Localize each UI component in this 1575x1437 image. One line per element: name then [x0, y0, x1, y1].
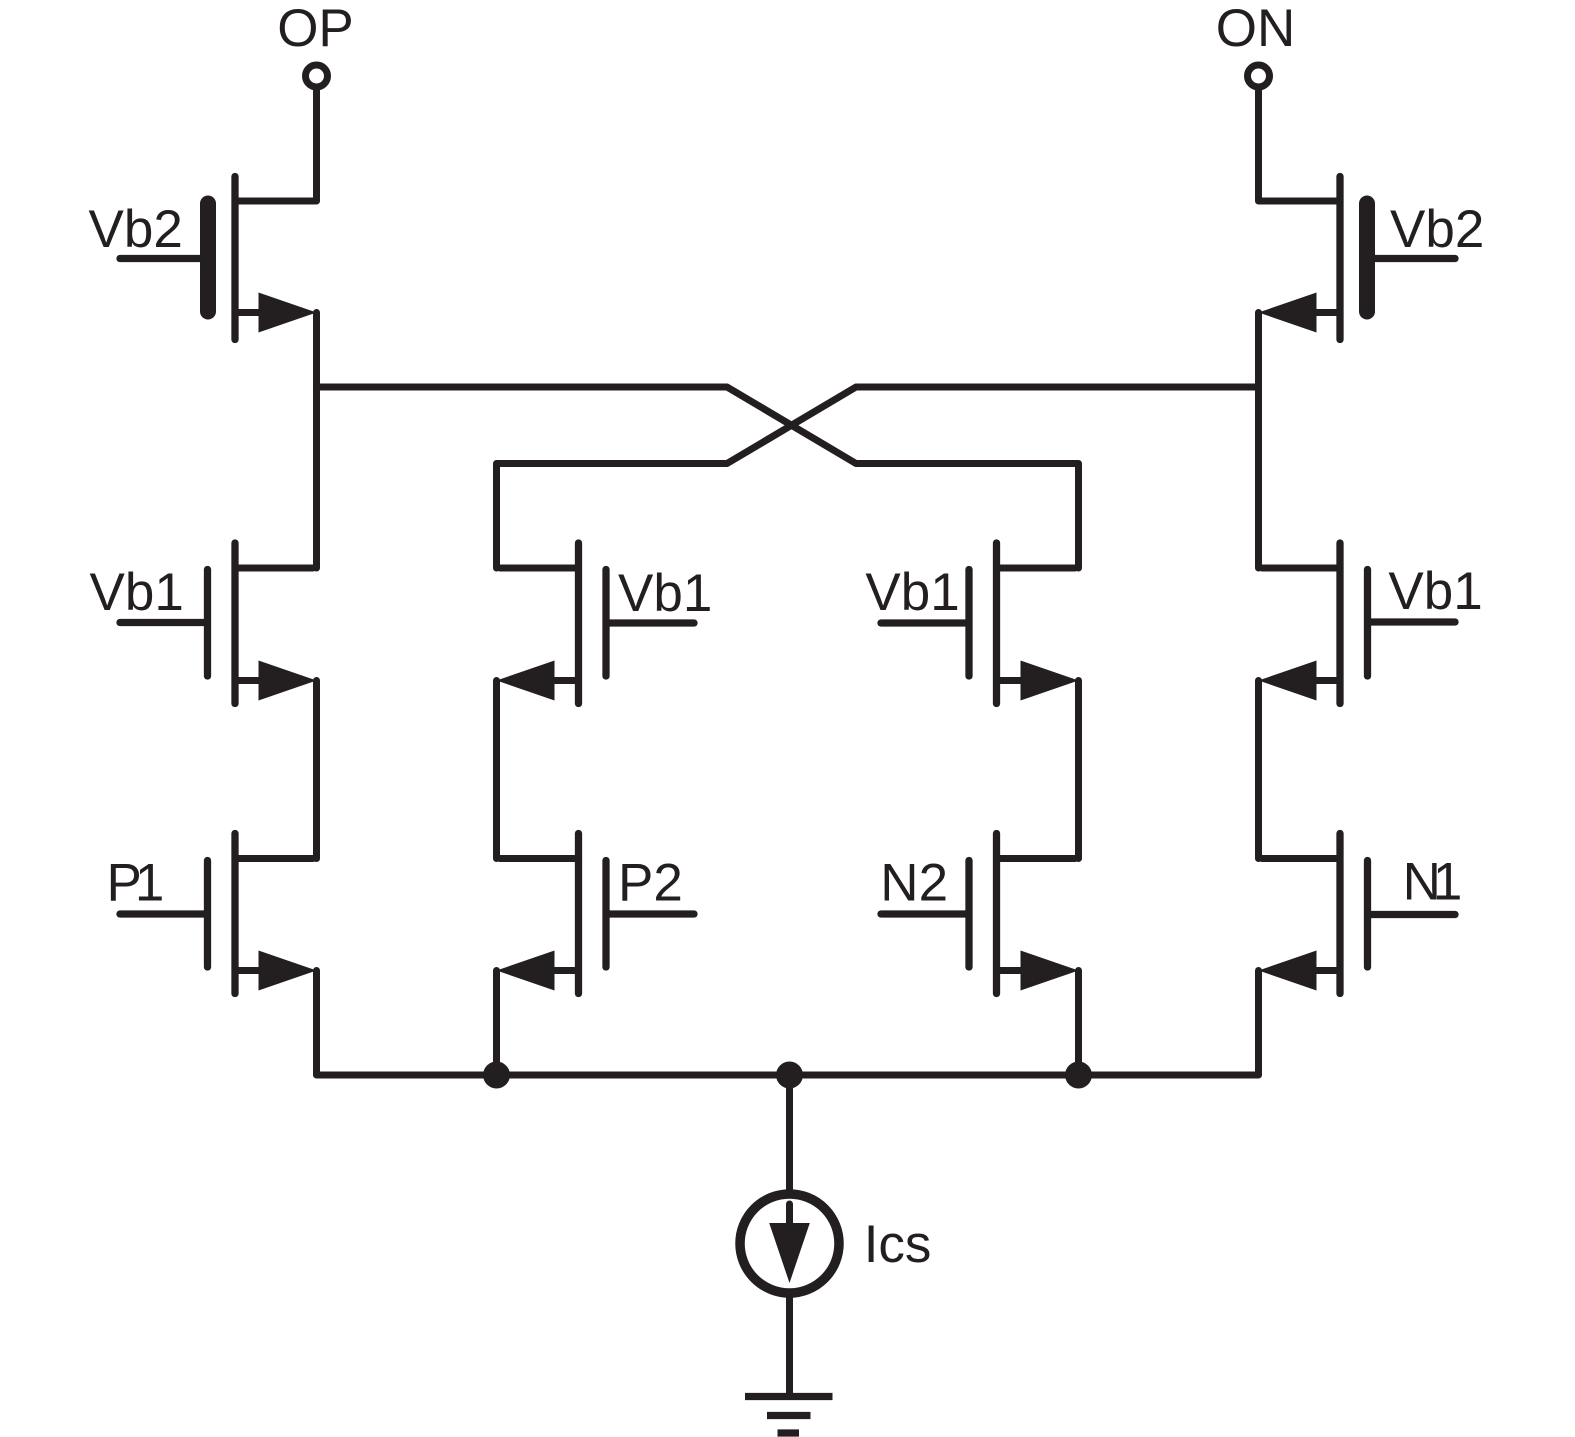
svg-text:Vb1: Vb1 [90, 563, 184, 622]
wire M6 source down to M10 drain [1255, 681, 1262, 859]
wire current source to ground [786, 1295, 793, 1394]
wire M8 source to rail [493, 971, 500, 1076]
transistor M2 Vb2 (top right PMOS cascode) [1259, 177, 1456, 340]
wire ON to M2 drain [1259, 88, 1341, 202]
wire M5 source down to M9 drain [1075, 681, 1082, 859]
transistor M3 Vb1 (outer-left NMOS-style cascode) [120, 543, 317, 704]
svg-text:N1: N1 [1403, 853, 1460, 912]
terminal ON [1248, 65, 1270, 87]
svg-text:P1: P1 [107, 854, 162, 913]
transistor M10 N1 (outer-right input, mirrored) [1259, 834, 1456, 994]
svg-text:ON: ON [1216, 0, 1296, 58]
current source Ics [740, 1194, 839, 1293]
wire cross-couple B (inner-left cascode drain to M2 source) [497, 387, 1259, 568]
transistor M6 Vb1 (outer-right cascode, mirrored) [1259, 543, 1456, 704]
wire M9 source to rail [1075, 971, 1082, 1076]
wire M3 source down to M7 drain [313, 681, 320, 859]
svg-text:Vb2: Vb2 [89, 200, 183, 259]
transistor M4 Vb1 (inner-left cascode, mirrored) [497, 543, 695, 704]
svg-text:OP: OP [277, 0, 354, 58]
junction tail node on rail [776, 1062, 803, 1089]
ground [745, 1397, 833, 1434]
transistor M1 Vb2 (top left PMOS cascode) [120, 177, 317, 340]
svg-text:Vb1: Vb1 [618, 564, 712, 623]
svg-text:Vb2: Vb2 [1390, 200, 1484, 259]
wire common-source rail [317, 971, 1259, 1076]
wire cross-couple A (M1 source to inner-right cascode drain) [317, 387, 1079, 568]
wire M2 source down to M6 drain [1255, 313, 1262, 569]
transistor M8 P2 (inner-left input, mirrored) [497, 834, 695, 994]
wire rail to current source [786, 1075, 793, 1191]
transistor M7 P1 (outer-left input) [120, 834, 317, 994]
svg-text:Vb1: Vb1 [1388, 562, 1482, 621]
svg-text:Vb1: Vb1 [865, 563, 959, 622]
svg-text:N2: N2 [880, 854, 948, 913]
svg-text:Ics: Ics [864, 1215, 932, 1274]
wire OP to M1 drain [235, 88, 317, 202]
junction N2 source on rail [1065, 1062, 1092, 1089]
terminal OP [306, 65, 328, 87]
wire M1 source down to M3 drain [313, 313, 320, 569]
transistor M5 Vb1 (inner-right cascode) [881, 543, 1079, 704]
wire M4 source down to M8 drain [493, 681, 500, 859]
junction P2 source on rail [483, 1062, 510, 1089]
svg-text:P2: P2 [618, 854, 683, 913]
transistor M9 N2 (inner-right input) [881, 834, 1079, 994]
